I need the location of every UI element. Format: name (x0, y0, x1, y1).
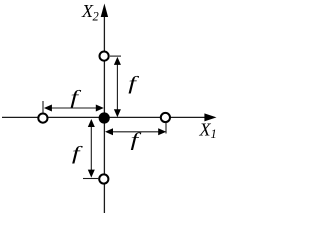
arrowhead right of top-left dimension (96, 105, 104, 112)
origin dot (99, 112, 110, 123)
svg-text:1: 1 (211, 127, 217, 141)
arrowhead left of bottom-right dimension (105, 128, 113, 135)
arrowhead right of bottom-right dimension (158, 128, 166, 135)
dimension line bottom-left (90, 125, 92, 172)
axis X2 arrowhead (101, 4, 108, 18)
dimension line bottom-right (111, 131, 160, 133)
axis X1 horizontal line (2, 116, 206, 118)
arrowhead top of top-right dimension (114, 57, 121, 65)
dimension line top-right (116, 63, 118, 111)
tick right of top circle (110, 55, 121, 57)
tick above left circle (42, 101, 44, 113)
tick left of bottom circle (83, 178, 98, 180)
axis X1 arrowhead (204, 113, 216, 121)
arrowhead bottom of top-right dimension (114, 109, 121, 117)
arrowhead bottom of bottom-left dimension (88, 170, 95, 178)
dimension line top-left (50, 107, 98, 109)
svg-text:2: 2 (93, 10, 99, 24)
tick below right circle (165, 123, 167, 134)
axis X2 vertical line (103, 14, 105, 213)
circle top (100, 52, 109, 61)
circle bottom (99, 174, 108, 183)
arrowhead left of top-left dimension (44, 105, 52, 112)
circle right (161, 113, 170, 122)
arrowhead top of bottom-left dimension (88, 119, 95, 127)
circle left (38, 114, 47, 123)
